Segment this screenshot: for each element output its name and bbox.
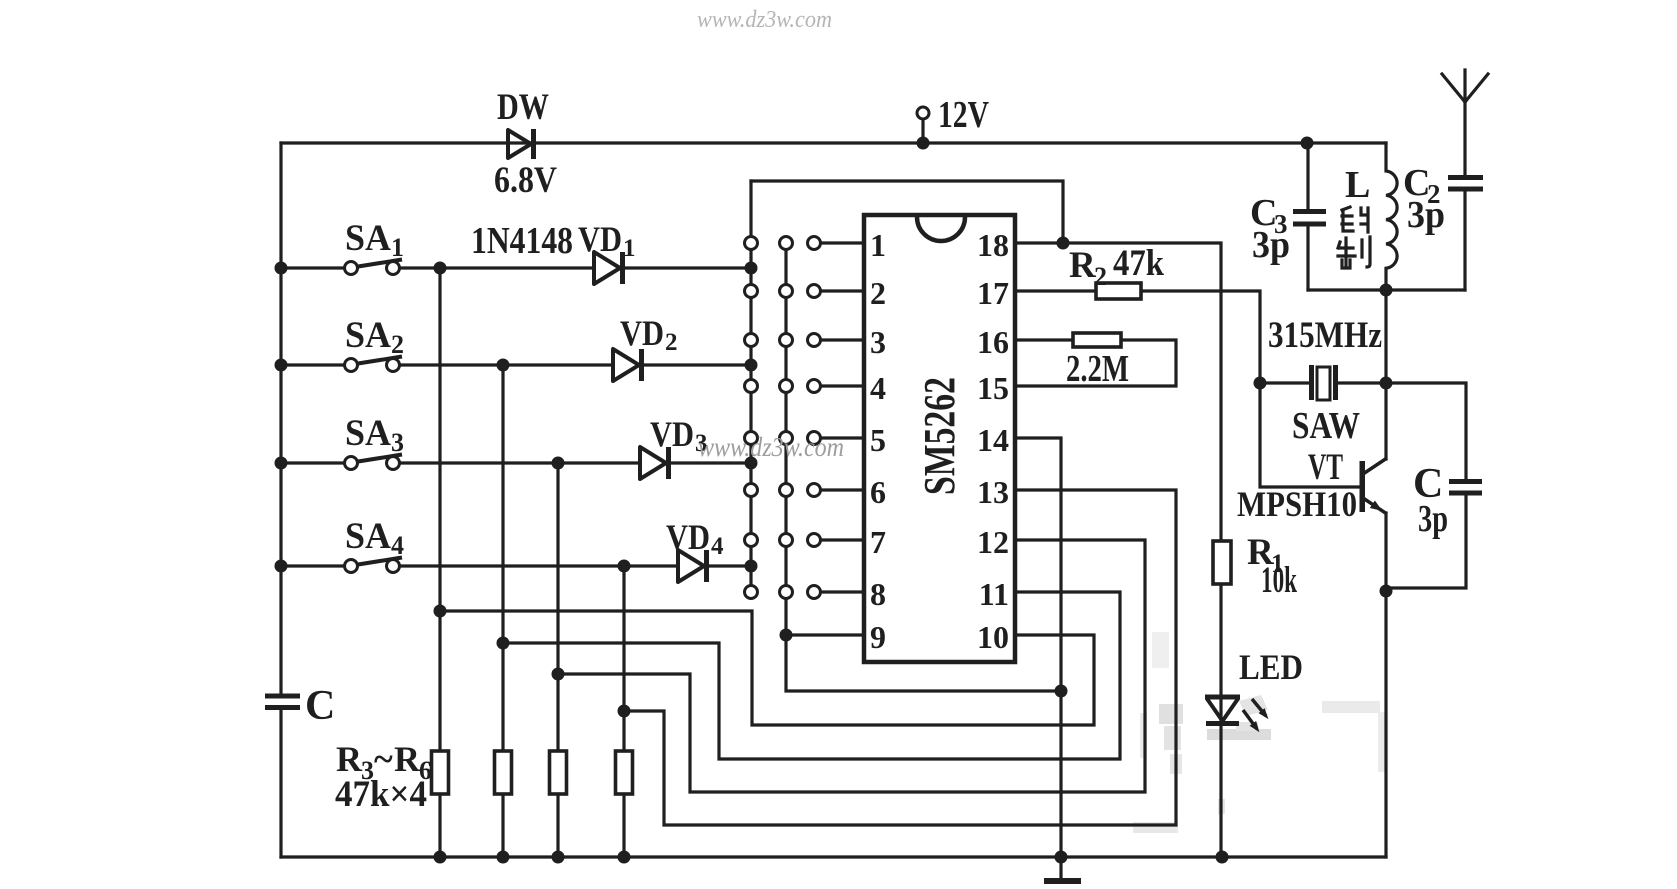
svg-text:www.dz3w.com: www.dz3w.com xyxy=(698,432,844,462)
svg-text:14: 14 xyxy=(977,422,1009,458)
svg-text:10k: 10k xyxy=(1261,560,1297,601)
svg-text:LED: LED xyxy=(1239,647,1303,687)
svg-text:13: 13 xyxy=(977,474,1009,510)
svg-text:10: 10 xyxy=(977,619,1009,655)
svg-text:R: R xyxy=(1069,245,1097,286)
svg-text:1N4148: 1N4148 xyxy=(471,220,573,262)
svg-text:R: R xyxy=(336,739,363,779)
svg-text:1: 1 xyxy=(391,233,404,262)
svg-text:5: 5 xyxy=(870,422,886,458)
svg-text:2: 2 xyxy=(870,275,886,311)
svg-text:www.dz3w.com: www.dz3w.com xyxy=(697,7,832,33)
svg-text:1: 1 xyxy=(870,227,886,263)
svg-text:17: 17 xyxy=(977,275,1009,311)
svg-text:SAW: SAW xyxy=(1292,405,1360,447)
svg-text:2: 2 xyxy=(391,330,404,359)
svg-text:SA: SA xyxy=(345,413,391,454)
svg-text:3p: 3p xyxy=(1252,224,1290,266)
svg-text:VT: VT xyxy=(1308,447,1343,488)
svg-text:47k×4: 47k×4 xyxy=(335,774,427,815)
svg-text:SA: SA xyxy=(345,516,391,557)
svg-text:6.8V: 6.8V xyxy=(494,160,557,201)
svg-text:8: 8 xyxy=(870,576,886,612)
svg-text:VD: VD xyxy=(578,219,622,259)
svg-text:12V: 12V xyxy=(938,94,989,136)
svg-text:SA: SA xyxy=(345,218,391,259)
svg-text:2: 2 xyxy=(1094,262,1107,291)
svg-text:1: 1 xyxy=(623,235,636,262)
svg-text:VD: VD xyxy=(666,517,710,557)
svg-text:SA: SA xyxy=(345,315,391,356)
svg-text:2: 2 xyxy=(665,329,678,356)
svg-text:3: 3 xyxy=(870,324,886,360)
svg-text:3: 3 xyxy=(391,428,404,457)
svg-text:11: 11 xyxy=(979,576,1009,612)
svg-text:R: R xyxy=(394,739,421,779)
svg-text:DW: DW xyxy=(497,87,549,128)
svg-text:3p: 3p xyxy=(1407,194,1445,236)
svg-text:C: C xyxy=(305,683,335,729)
svg-text:VD: VD xyxy=(650,414,694,454)
svg-text:4: 4 xyxy=(870,370,886,406)
svg-text:12: 12 xyxy=(977,524,1009,560)
svg-text:2.2M: 2.2M xyxy=(1066,348,1129,390)
svg-text:18: 18 xyxy=(977,227,1009,263)
svg-text:9: 9 xyxy=(870,619,886,655)
svg-text:47k: 47k xyxy=(1113,243,1164,284)
svg-text:4: 4 xyxy=(711,533,724,560)
svg-text:7: 7 xyxy=(870,524,886,560)
svg-text:SM5262: SM5262 xyxy=(915,377,964,495)
svg-text:6: 6 xyxy=(870,474,886,510)
svg-text:MPSH10: MPSH10 xyxy=(1237,484,1357,524)
svg-text:16: 16 xyxy=(977,324,1009,360)
svg-text:L: L xyxy=(1345,164,1370,206)
svg-text:4: 4 xyxy=(391,531,404,560)
svg-text:VD: VD xyxy=(620,313,664,353)
svg-text:15: 15 xyxy=(977,370,1009,406)
svg-text:3p: 3p xyxy=(1418,498,1448,540)
svg-text:315MHz: 315MHz xyxy=(1268,315,1382,356)
svg-text:~: ~ xyxy=(374,739,393,779)
